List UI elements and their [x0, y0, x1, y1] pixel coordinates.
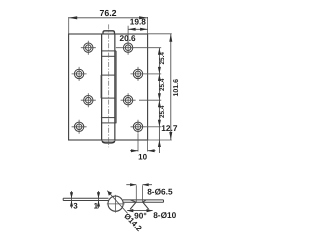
barrel division line 2: [101, 74, 115, 76]
chain arrows row3: [158, 93, 161, 107]
dim 19.8 arrows: [128, 28, 148, 31]
barrel division line 1b: [102, 55, 115, 57]
hole R3: [121, 93, 136, 107]
dim 19.8 line: [128, 28, 148, 30]
barrel division line 1: [102, 50, 116, 52]
barrel bottom cap: [102, 140, 115, 143]
svg-text:25.4: 25.4: [159, 78, 166, 91]
left leaf plate: [69, 34, 102, 140]
hole L2: [72, 67, 87, 81]
dim 90 line: [127, 210, 152, 212]
dim 3 line: [71, 191, 73, 208]
dim 10 extension lines: [138, 134, 148, 152]
bottom view left strip: [63, 198, 108, 200]
chain arrows row1: [158, 48, 161, 55]
dim 90 arrows: [127, 209, 153, 212]
hole R2: [131, 67, 146, 81]
svg-text:90°: 90°: [134, 210, 147, 220]
right leaf curl line: [115, 51, 117, 123]
dim 76.2 line: [69, 17, 148, 19]
svg-text:25.4: 25.4: [159, 105, 166, 118]
barrel body: [102, 34, 115, 140]
barrel division line 4: [101, 117, 115, 119]
leader row2: [146, 73, 162, 75]
svg-text:3: 3: [73, 201, 78, 210]
svg-text:8-Ø6.5: 8-Ø6.5: [147, 186, 173, 196]
svg-text:1: 1: [94, 201, 99, 210]
leader row3: [139, 99, 161, 101]
dim 10 line: [130, 150, 156, 152]
barrel centerline: [108, 24, 110, 147]
hole R1: [123, 41, 132, 55]
barrel division line 5: [102, 122, 117, 124]
knuckle circle: [108, 196, 123, 211]
dim 8-dia6.5 arrows: [130, 183, 149, 186]
chain dimension line: [158, 48, 160, 153]
chain arrow bottom: [158, 140, 161, 147]
chain arrows row4: [158, 120, 161, 127]
90 deg slope extensions: [130, 202, 148, 209]
right leaf plate: [115, 34, 148, 140]
hole R4: [131, 120, 146, 134]
svg-text:101.6: 101.6: [173, 79, 180, 97]
leader row4: [146, 126, 162, 128]
bottom view right strip: [123, 200, 164, 202]
dia 14.2 arrow: [108, 191, 113, 196]
dim 76.2 extension lines: [69, 17, 148, 34]
svg-text:8-Ø10: 8-Ø10: [153, 210, 176, 220]
svg-text:12.7: 12.7: [161, 123, 178, 133]
countersink hole walls / extensions: [136, 185, 142, 202]
top edge extension: [148, 33, 172, 35]
dim 1 line: [98, 191, 100, 208]
knuckle top cap: [103, 31, 115, 35]
dim 8-dia6.5 line: [126, 184, 152, 186]
dim 1 arrows: [97, 192, 100, 206]
dim 76.2 arrows: [69, 16, 148, 19]
dia 14.2 leader line: [107, 191, 127, 214]
hole L3: [81, 93, 96, 107]
svg-text:25.4: 25.4: [159, 52, 166, 65]
svg-text:19.8: 19.8: [130, 17, 147, 27]
dim 19.8 extension line: [127, 26, 129, 44]
dim 101.6 arrows: [169, 34, 172, 140]
leader row1: [116, 47, 161, 49]
hole L1: [81, 41, 96, 55]
barrel left bulge (middle knuckle): [100, 75, 102, 98]
dim 3 arrows: [70, 192, 73, 206]
hole L4: [72, 120, 87, 134]
svg-text:10: 10: [138, 153, 147, 162]
knuckle circle crosshair: [107, 195, 125, 213]
svg-text:20.6: 20.6: [120, 33, 137, 43]
barrel division line 3: [101, 97, 115, 99]
svg-text:76.2: 76.2: [99, 8, 116, 18]
countersink cone: [130, 200, 146, 202]
bottom edge extension: [148, 139, 172, 141]
dim 101.6 line: [170, 34, 172, 140]
dim 10 arrows: [131, 149, 155, 152]
chain arrows row2: [158, 67, 161, 81]
